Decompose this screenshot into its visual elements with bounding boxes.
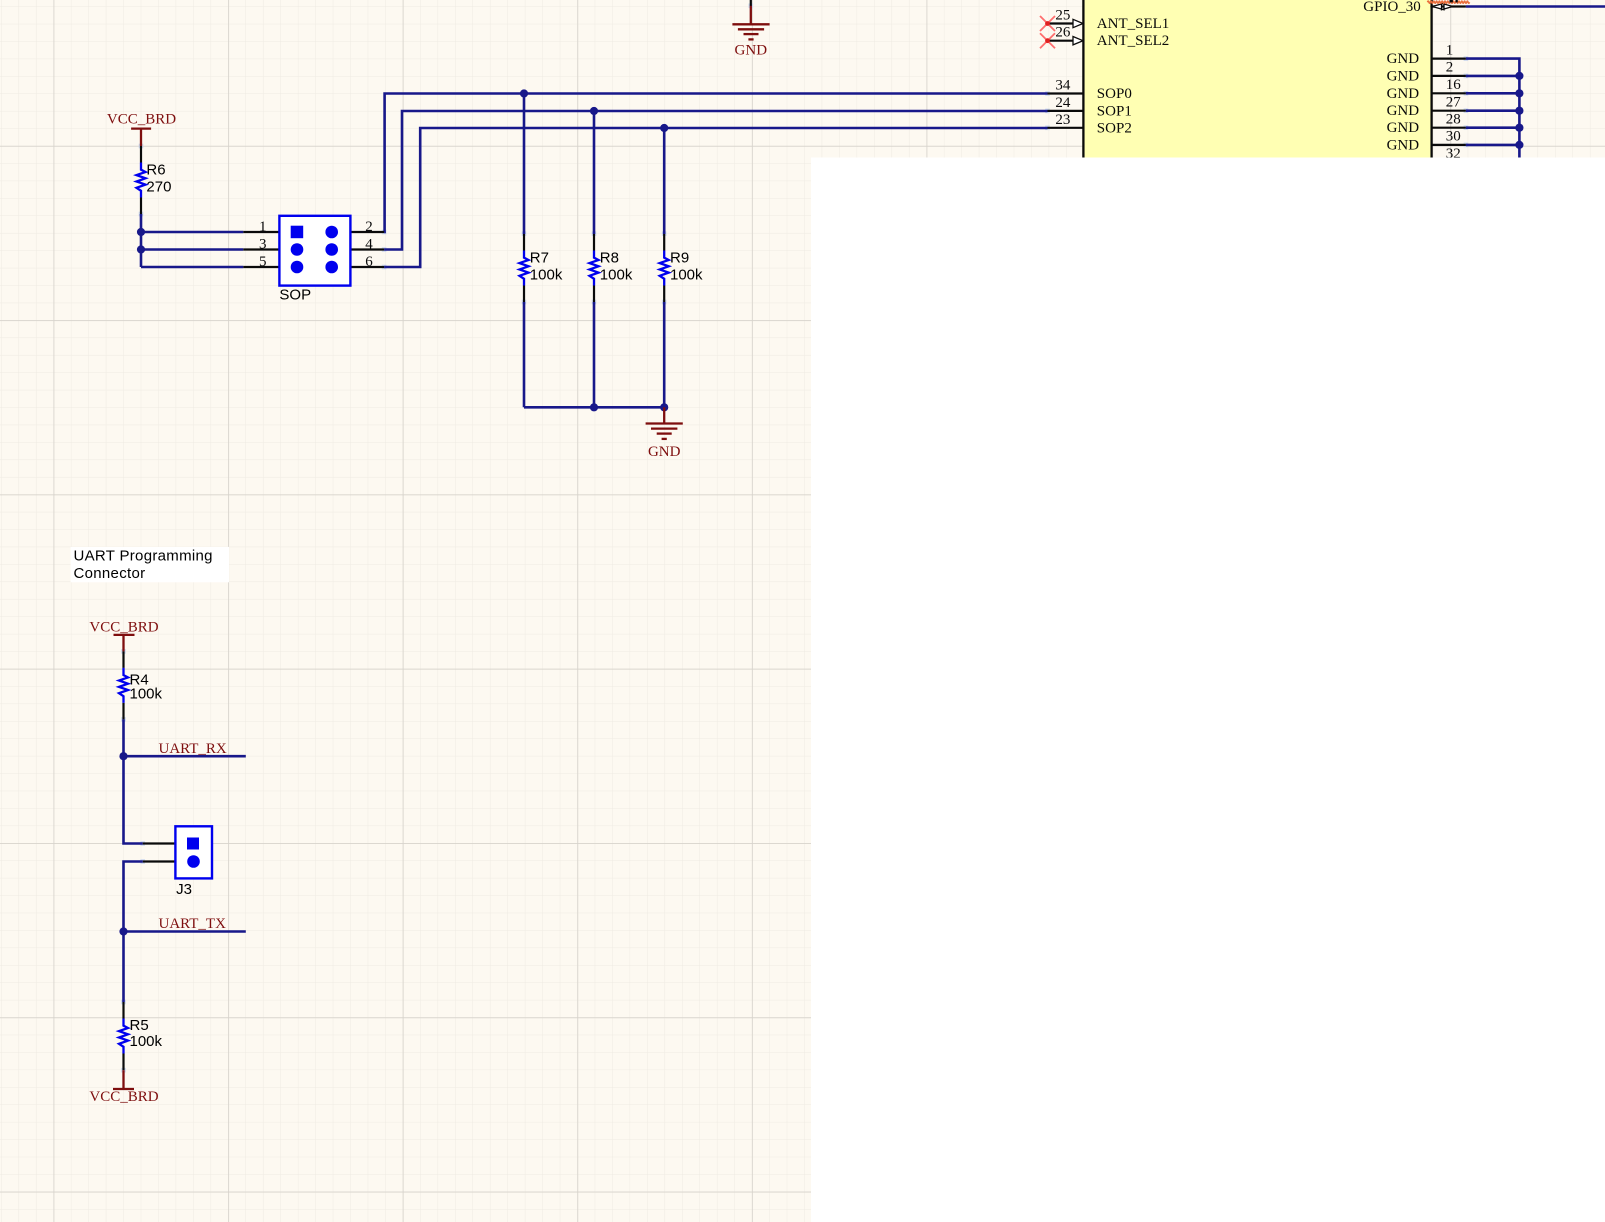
pin 27 GND (1387, 95, 1466, 120)
no-ERC cross on pin 25 (1040, 16, 1055, 31)
svg-text:1: 1 (259, 219, 267, 235)
resistor R4 100k (119, 651, 163, 756)
svg-text:100k: 100k (530, 267, 563, 284)
svg-text:1: 1 (1446, 42, 1454, 58)
svg-text:GND: GND (735, 43, 768, 59)
svg-text:30: 30 (1446, 129, 1461, 145)
power VCC_BRD (top) (107, 112, 176, 147)
svg-text:R7: R7 (530, 249, 549, 266)
svg-text:SOP1: SOP1 (1097, 103, 1132, 119)
svg-text:GPIO_30: GPIO_30 (1363, 0, 1421, 15)
svg-text:270: 270 (146, 179, 171, 196)
net label error squiggle (clipped at top) (1428, 0, 1470, 3)
resistor R6 270 (137, 146, 172, 214)
wire / net label UART_RX (124, 741, 246, 757)
pin 25 ANT_SEL1 (1048, 7, 1170, 32)
pin 34 SOP0 (1048, 78, 1132, 103)
wire / net label UART_TX (124, 916, 246, 932)
svg-text:VCC_BRD: VCC_BRD (89, 1089, 158, 1105)
wire SOP2 net (384, 128, 1047, 267)
ground (top, GND power port) (732, 0, 769, 59)
svg-text:100k: 100k (670, 267, 703, 284)
svg-text:16: 16 (1446, 77, 1462, 93)
resistor R7 100k (520, 94, 563, 408)
svg-text:24: 24 (1055, 95, 1071, 111)
wire endpoint markers (121, 4, 1468, 1073)
svg-text:R5: R5 (130, 1017, 149, 1034)
power VCC_BRD (UART section top) (89, 620, 158, 652)
wire bottom of R7/R8/R9 (524, 406, 664, 409)
pin 23 SOP2 (1048, 112, 1132, 137)
svg-text:SOP: SOP (279, 286, 311, 303)
svg-text:GND: GND (1387, 86, 1420, 102)
svg-text:26: 26 (1055, 25, 1071, 41)
wire GND bus right of IC (1466, 59, 1520, 158)
resistor R8 100k (590, 111, 633, 407)
svg-text:100k: 100k (130, 686, 163, 703)
wire UART_TX down to R5 (122, 932, 125, 1003)
wire UART_RX to J3 pin1 (124, 756, 143, 843)
svg-text:R6: R6 (146, 161, 165, 178)
wire R6 to SOP pins 1/3/5 (141, 214, 243, 267)
pin 24 SOP1 (1048, 95, 1132, 120)
no-ERC cross on pin 26 (1040, 33, 1055, 48)
svg-text:GND: GND (648, 444, 681, 460)
pin 26 ANT_SEL2 (1048, 25, 1170, 50)
junction node R8/bottom (590, 403, 598, 411)
pin GPIO_30 (bidirectional) (1363, 0, 1466, 15)
pin 1 GND (1387, 42, 1466, 67)
junction dots on GND bus (1515, 72, 1523, 149)
wire SOP1 net (384, 111, 1047, 250)
svg-text:100k: 100k (130, 1033, 163, 1050)
text note UART Programming Connector (71, 547, 229, 582)
svg-text:GND: GND (1387, 103, 1420, 119)
pin 16 GND (1387, 77, 1466, 102)
svg-text:100k: 100k (600, 267, 633, 284)
unrendered white region bottom-right (811, 158, 1605, 1222)
pin 2 GND (1387, 60, 1466, 85)
svg-text:GND: GND (1387, 120, 1420, 136)
svg-text:6: 6 (365, 254, 373, 270)
junction node R9/bottom (660, 403, 668, 411)
svg-text:R9: R9 (670, 249, 689, 266)
wire SOP0 net (384, 94, 1047, 233)
IC U1 wireless MCU (yellow component body, clipped at top and bottom) (1082, 0, 1432, 158)
svg-text:Connector: Connector (74, 565, 146, 582)
ground (below R9, GND power port) (646, 407, 683, 460)
svg-text:5: 5 (259, 254, 267, 270)
svg-text:SOP2: SOP2 (1097, 120, 1132, 136)
svg-text:GND: GND (1387, 51, 1420, 67)
svg-text:27: 27 (1446, 95, 1462, 111)
svg-text:34: 34 (1055, 78, 1071, 94)
svg-text:R8: R8 (600, 249, 619, 266)
svg-text:4: 4 (365, 237, 373, 253)
svg-text:2: 2 (1446, 60, 1454, 76)
svg-text:VCC_BRD: VCC_BRD (89, 620, 158, 636)
svg-text:VCC_BRD: VCC_BRD (107, 112, 176, 128)
svg-text:UART_RX: UART_RX (159, 741, 227, 757)
wire GPIO_30 (1466, 5, 1605, 8)
svg-text:28: 28 (1446, 112, 1461, 128)
svg-text:23: 23 (1055, 112, 1070, 128)
svg-text:ANT_SEL1: ANT_SEL1 (1097, 16, 1170, 32)
svg-text:ANT_SEL2: ANT_SEL2 (1097, 33, 1170, 49)
junction node SOP0/R7 (520, 89, 528, 97)
junction node UART_TX (119, 927, 127, 935)
connector SOP (header 3x2) (243, 216, 384, 303)
svg-text:UART_TX: UART_TX (159, 916, 227, 932)
svg-text:2: 2 (365, 219, 373, 235)
junction node SOP1/R8 (590, 107, 598, 115)
wire J3 pin2 to UART_TX (124, 862, 143, 932)
connector J3 (143, 826, 212, 898)
resistor R9 100k (660, 128, 703, 407)
junction node UART_RX (119, 752, 127, 760)
svg-text:25: 25 (1055, 7, 1070, 23)
junction node at SOP pin1 row (137, 228, 145, 236)
power VCC_BRD (bottom) (89, 1070, 158, 1105)
svg-text:GND: GND (1387, 68, 1420, 84)
junction node at SOP pin3 row (137, 245, 145, 253)
pin 28 GND (1387, 112, 1466, 137)
svg-text:SOP0: SOP0 (1097, 86, 1132, 102)
junction node SOP2/R9 (660, 124, 668, 132)
svg-text:J3: J3 (176, 881, 192, 898)
svg-text:UART Programming: UART Programming (74, 548, 213, 565)
resistor R5 100k (119, 1002, 163, 1070)
svg-text:3: 3 (259, 237, 267, 253)
pin 30 GND (1387, 129, 1466, 154)
svg-text:GND: GND (1387, 137, 1420, 153)
